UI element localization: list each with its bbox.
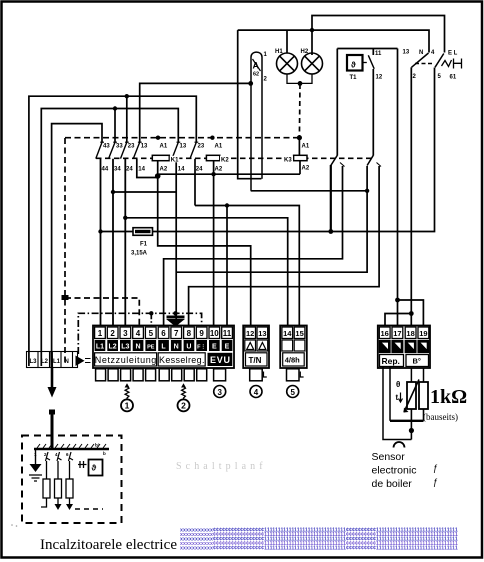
heater element R1: [41, 461, 50, 507]
wire H1 terminal6 to K3: [164, 166, 343, 326]
wire sensor feed 13: [397, 49, 399, 327]
svg-text:N: N: [174, 344, 179, 351]
svg-text:3: 3: [217, 388, 222, 397]
svg-text:3: 3: [123, 329, 128, 338]
contact B top right: [435, 54, 444, 68]
svg-text:T1: T1: [350, 75, 358, 81]
node dot dashed N corner: [62, 295, 69, 300]
triangle symbols T/N: [245, 340, 268, 351]
svg-text:ϑ: ϑ: [351, 61, 356, 70]
svg-text:1: 1: [264, 52, 268, 58]
svg-text:5: 5: [438, 74, 442, 80]
node dot sensor 17/19: [395, 298, 400, 303]
cable arrowhead: [48, 387, 57, 398]
circled 5: [287, 386, 299, 398]
svg-text:A1: A1: [215, 144, 223, 150]
contact K1 13/14: [133, 142, 139, 158]
contact K1 43/44: [96, 142, 102, 158]
svg-text:11: 11: [223, 329, 232, 338]
svg-text:16: 16: [381, 329, 389, 338]
circled 4: [250, 386, 262, 398]
wire 1k bottom: [423, 409, 425, 421]
heater element R3: [66, 461, 73, 504]
svg-text:A2: A2: [302, 166, 310, 172]
terminal cells 12 13: [245, 327, 256, 339]
svg-text:5: 5: [290, 388, 295, 397]
cable cap: [49, 410, 55, 415]
svg-text:S c h a l t p l a n f: S c h a l t p l a n f: [176, 461, 263, 472]
quote marks: [433, 463, 438, 487]
lamp H1: [277, 53, 301, 83]
cable to heaters lower: [51, 411, 54, 449]
svg-text:23: 23: [198, 144, 205, 150]
svg-text:E: E: [225, 344, 230, 351]
wire loop A (L3 phase): [29, 96, 196, 366]
svg-text:E L: E L: [448, 51, 458, 57]
coil K1: [152, 155, 169, 160]
contact T1 11/12: [368, 55, 374, 69]
wire K2 contact 24 riser: [194, 159, 196, 206]
wire K1 contact 44 to terminal 1: [100, 159, 102, 326]
node dot lamp common: [298, 81, 303, 86]
svg-text:62: 62: [253, 72, 259, 78]
svg-text:electronic: electronic: [372, 465, 417, 477]
heater element R3 arrow: [66, 504, 73, 510]
wire K3 coil A2 to bus: [299, 160, 301, 174]
letter cells L1 L2 L3 N: [95, 340, 106, 351]
wire H2 horizontal: [176, 166, 367, 272]
thermistor diagonal: [404, 380, 419, 413]
svg-text:10: 10: [210, 329, 219, 338]
svg-text:xxxxxxxxxxx¢¢¢¢¢¢¢¢¢¢¢¢¢¢¢¢¢11: xxxxxxxxxxx¢¢¢¢¢¢¢¢¢¢¢¢¢¢¢¢¢111111111111…: [180, 546, 458, 552]
resistor 1k body: [419, 382, 428, 409]
wire T1 contact 12 down to K3 right contact: [372, 69, 374, 156]
svg-text:N: N: [419, 50, 423, 56]
svg-text:EVU: EVU: [210, 355, 230, 365]
svg-text:L2: L2: [41, 359, 49, 365]
partial circle 6: [394, 442, 405, 447]
svg-text:1: 1: [125, 401, 130, 411]
wire mechanical linkage dashed: [96, 157, 375, 159]
fuse F1: [133, 228, 153, 236]
node dot PE earth: [173, 311, 177, 315]
label Sensor electronic de boiler: [372, 451, 417, 490]
wire K1 contact 14 link: [137, 159, 158, 178]
svg-text:13: 13: [180, 144, 187, 150]
node dot T2-lamp riser: [310, 28, 314, 32]
thermistor body: [407, 382, 416, 409]
name cell EVU: [208, 353, 233, 366]
wire top line T1: [312, 16, 445, 56]
svg-text:Sensor: Sensor: [372, 451, 406, 463]
terminal cells numbers 1-11: [95, 327, 106, 339]
connector L1 thick feed: [50, 352, 53, 369]
svg-text:ϑ: ϑ: [92, 464, 97, 473]
svg-text:14: 14: [178, 167, 185, 173]
label K3 ref: [283, 156, 293, 163]
tick mark right of 4/8h stub: [300, 372, 303, 378]
cable to heaters upper: [51, 368, 54, 388]
blank cells 4/8h: [282, 340, 293, 351]
wire B cell down: [389, 367, 391, 421]
heater dashed box: [22, 436, 122, 524]
wire thermistor bottom: [410, 409, 412, 440]
wire branch loop B to K1 contact 33: [114, 109, 116, 143]
left connector box: [27, 352, 78, 368]
lamp H2: [300, 53, 323, 83]
name cell T/N: [246, 353, 268, 366]
heater thermostat tick: [80, 461, 84, 468]
svg-text:15: 15: [295, 329, 303, 338]
wire T1 contact riser: [372, 49, 374, 56]
svg-text:(bauseits): (bauseits): [423, 412, 458, 422]
svg-text:t: t: [396, 393, 399, 402]
wire K3 coil A1 riser: [298, 138, 300, 156]
node dot H190 right: [365, 189, 369, 193]
svg-text:F1: F1: [140, 242, 148, 248]
svg-text:θ: θ: [396, 380, 400, 389]
svg-text:44: 44: [102, 167, 109, 173]
svg-text:H1: H1: [275, 49, 283, 55]
sensor terminal block 16-19 outer: [378, 326, 430, 369]
svg-text:T/N: T/N: [249, 356, 262, 365]
svg-text:33: 33: [116, 144, 123, 150]
svg-text:18: 18: [406, 329, 414, 338]
heater control box: [89, 460, 103, 476]
svg-text:24: 24: [196, 167, 203, 173]
wire K1 coil A2 riser to terminal 12: [158, 160, 251, 326]
switch A box: [251, 52, 262, 191]
name cell Netzzuleitung: [95, 353, 157, 366]
wire Rep loop down: [383, 367, 411, 440]
contact K1 33/34: [109, 142, 115, 158]
svg-text:4: 4: [254, 388, 259, 397]
heater element R2: [55, 461, 62, 504]
letter cells L N U F: [158, 340, 169, 351]
heater dashed link: [75, 508, 103, 510]
node dot A2 bus K2: [211, 172, 215, 176]
svg-text:4/8h: 4/8h: [285, 356, 300, 365]
svg-text:A1: A1: [302, 144, 310, 150]
wire K3 left NC riser: [330, 165, 332, 232]
node dot sensor loop: [409, 428, 414, 433]
wire lamp H1 riser: [286, 30, 288, 53]
svg-text:12: 12: [246, 329, 254, 338]
svg-text:1: 1: [98, 329, 103, 338]
svg-text:K2: K2: [221, 158, 229, 164]
wire PE dash-dot: [78, 313, 201, 354]
svg-text:L3: L3: [121, 344, 129, 351]
wire loop C (L1 phase): [52, 124, 102, 366]
svg-text:23: 23: [128, 144, 135, 150]
svg-text:L1: L1: [53, 359, 61, 365]
svg-text:2: 2: [264, 77, 268, 83]
heater thermostat link: [78, 464, 87, 466]
wire terminal 11 riser: [226, 206, 228, 327]
svg-text:14: 14: [283, 329, 292, 338]
circled 2: [178, 399, 190, 411]
svg-text:13: 13: [258, 329, 266, 338]
wire sensor branch to 16: [385, 314, 411, 327]
svg-text:E: E: [212, 344, 217, 351]
svg-text:A2: A2: [160, 167, 168, 173]
node dot PE terminal 5: [149, 311, 153, 315]
heater contact blades: [46, 452, 74, 461]
svg-text:19: 19: [419, 329, 427, 338]
svg-text:A2: A2: [215, 167, 223, 173]
svg-text:F⋮: F⋮: [197, 344, 206, 351]
svg-text:24: 24: [126, 167, 133, 173]
wire H190 right segment: [251, 190, 367, 192]
label cell B: [406, 355, 429, 367]
svg-text:3,15A: 3,15A: [131, 251, 148, 257]
svg-text:7: 7: [174, 329, 179, 338]
node dot K2 A1: [210, 136, 214, 140]
wire K1 contact 34 to terminal 2: [112, 159, 114, 326]
circled 1: [121, 399, 133, 411]
svg-text:ƒ: ƒ: [433, 477, 438, 487]
svg-text:5: 5: [149, 329, 154, 338]
contact K3 left changeover: [331, 155, 345, 166]
wire loop B (L2 phase): [41, 109, 178, 367]
wire PE stub terminal5: [150, 313, 152, 326]
node dot line205 terminal 11: [225, 203, 229, 207]
letter cell PE: [145, 340, 156, 351]
svg-text:14: 14: [138, 167, 145, 173]
svg-text:6: 6: [161, 329, 166, 338]
svg-text:K3: K3: [284, 158, 292, 164]
wire sensor bottom bar: [390, 420, 424, 422]
svg-text:L3: L3: [30, 359, 38, 365]
node dot line232 left: [98, 229, 102, 233]
svg-text:6: 6: [66, 452, 69, 457]
svg-text:Netzzuleitung: Netzzuleitung: [95, 355, 157, 365]
name cell Kesselreg: [158, 353, 205, 366]
svg-text:2: 2: [413, 74, 417, 80]
svg-text:PE: PE: [147, 345, 155, 351]
wire N dashed riser: [64, 138, 66, 365]
contact A top right: [411, 53, 428, 70]
wire line 48 top: [337, 48, 397, 50]
label K2 ref: [220, 156, 230, 163]
connector cell dividers: [38, 352, 73, 368]
svg-text:2: 2: [181, 401, 186, 411]
tick mark right of T/N stub: [264, 372, 267, 378]
heater bus bar: [34, 448, 109, 451]
svg-text:12: 12: [376, 75, 383, 81]
wire coil control dashed line: [65, 137, 299, 139]
relay K1 contacts: [96, 142, 197, 158]
cable spring arrow 2: [181, 383, 186, 387]
svg-text:Kesselreg.: Kesselreg.: [159, 355, 205, 365]
wire N dashed branch to terminal 4: [65, 298, 139, 326]
svg-text:17: 17: [393, 329, 401, 338]
node dot A2 junction blob: [155, 173, 161, 179]
node dot switch A feed: [248, 81, 253, 86]
wire line 232 with F1: [101, 68, 435, 232]
svg-text:Incalzitoarele electrice: Incalzitoarele electrice: [40, 537, 177, 553]
svg-text:8: 8: [187, 329, 192, 338]
svg-text:1kΩ: 1kΩ: [430, 386, 467, 408]
svg-text:34: 34: [114, 167, 121, 173]
sensor cells 16-19: [379, 327, 390, 339]
blue dotted watermark rows: [180, 528, 458, 552]
svg-text:4: 4: [136, 329, 141, 338]
svg-text:K1: K1: [171, 158, 179, 164]
wire A2 bus: [158, 173, 300, 175]
wire top line T2: [238, 30, 429, 52]
circled 3: [214, 386, 226, 398]
svg-text:N: N: [135, 344, 140, 351]
terminal block T/N outer: [243, 326, 269, 369]
linkage dashes contacts A B: [415, 63, 433, 65]
contact K3 right changeover: [367, 155, 381, 166]
svg-text:11: 11: [375, 51, 382, 57]
svg-text:43: 43: [103, 144, 110, 150]
wire H2 terminal7 to K3 right contact: [175, 159, 177, 326]
svg-text:61: 61: [450, 75, 457, 81]
terminal numbers 14 15: [283, 329, 304, 338]
svg-text:A1: A1: [160, 144, 168, 150]
wire K1 contact 24 to terminal 3: [124, 159, 126, 326]
node dot H190 left: [111, 190, 115, 194]
wire K3 left contact top riser: [336, 49, 338, 156]
svg-text:L2: L2: [109, 344, 117, 351]
letter cells E E: [209, 340, 220, 351]
name cell 4/8h: [283, 353, 305, 366]
svg-text:4: 4: [55, 452, 58, 457]
svg-text:de boiler: de boiler: [372, 478, 413, 490]
svg-text:H2: H2: [301, 49, 309, 55]
terminal cells 14 15: [282, 327, 293, 339]
wire link K1-34 to K2-14 riser: [113, 191, 176, 193]
wire branch loop A to K1 contact 23: [126, 96, 128, 142]
sensor triangle cells: [379, 341, 390, 353]
coil K2: [206, 155, 219, 160]
heater tiny labels: [34, 451, 106, 457]
label K1 ref: [170, 156, 180, 163]
wire lamp common dashed to K3 A1: [298, 84, 301, 138]
wire sensor branch to 19: [398, 300, 424, 326]
stub boxes under strip: [96, 369, 299, 381]
connector arrow ticks: [85, 359, 91, 363]
svg-text:2: 2: [110, 329, 115, 338]
svg-text:b’: b’: [95, 443, 99, 448]
wire K2 coil A2 to terminal 10: [213, 160, 215, 326]
wire K1 contact 13 top feed: [140, 83, 251, 142]
wire switch A feed from T2: [238, 30, 262, 179]
svg-text:L1: L1: [96, 344, 104, 351]
tiny gray dots bottom left: [11, 524, 13, 526]
svg-text:Rep.: Rep.: [382, 356, 400, 366]
terminal numbers 12 13: [246, 329, 267, 338]
node dot sensor 16/18: [409, 311, 414, 316]
node dot loop A / K1-23: [125, 94, 129, 98]
node dot line218 left: [123, 216, 127, 220]
contact K1 23/24: [121, 142, 127, 158]
heater element R2 arrow: [55, 504, 62, 510]
svg-text:13: 13: [141, 144, 148, 150]
svg-text:b: b: [103, 451, 106, 456]
node dot K1 A1: [156, 136, 160, 140]
svg-text:A: A: [253, 61, 260, 71]
svg-text:N: N: [65, 359, 69, 365]
svg-text:L: L: [161, 344, 166, 351]
cable spring arrow 1: [125, 383, 130, 387]
svg-text:13: 13: [403, 50, 410, 56]
terminal strip 1-11 outer: [93, 326, 234, 369]
wire H3 terminal8 to K3 right NO: [189, 166, 380, 326]
svg-text:B°: B°: [413, 357, 421, 366]
thermal mark check: [442, 60, 452, 67]
wire line 218 to terminal 14: [125, 218, 287, 326]
svg-text:U: U: [186, 344, 191, 351]
svg-text:9: 9: [199, 329, 204, 338]
label cell Rep: [380, 355, 404, 367]
thermal mark H: [454, 59, 462, 69]
wire line 205 to terminal 15: [195, 206, 299, 327]
connector arrow: [76, 356, 85, 367]
coil K3: [294, 155, 307, 160]
ground stub: [35, 450, 37, 464]
contact fixed ticks: [100, 141, 198, 143]
svg-text:ƒ: ƒ: [433, 463, 438, 473]
terminal block 4/8h outer: [280, 326, 307, 369]
contact K2 13/14: [172, 142, 178, 158]
heater bus hatches: [37, 444, 106, 448]
wire thermistor top: [411, 368, 423, 382]
earth symbol on PE line: [167, 313, 184, 326]
contact K2 23/24: [190, 142, 196, 158]
wire contact A bottom riser: [410, 68, 412, 327]
transformer box T1: [347, 55, 367, 71]
node dot loop B / K1-33: [113, 106, 117, 110]
thermistor t arrow: [396, 393, 403, 403]
node dot line232 K3: [328, 229, 333, 234]
svg-text:4: 4: [431, 50, 435, 56]
node dot K3 A1: [297, 135, 302, 140]
ground symbol heater: [30, 464, 42, 472]
